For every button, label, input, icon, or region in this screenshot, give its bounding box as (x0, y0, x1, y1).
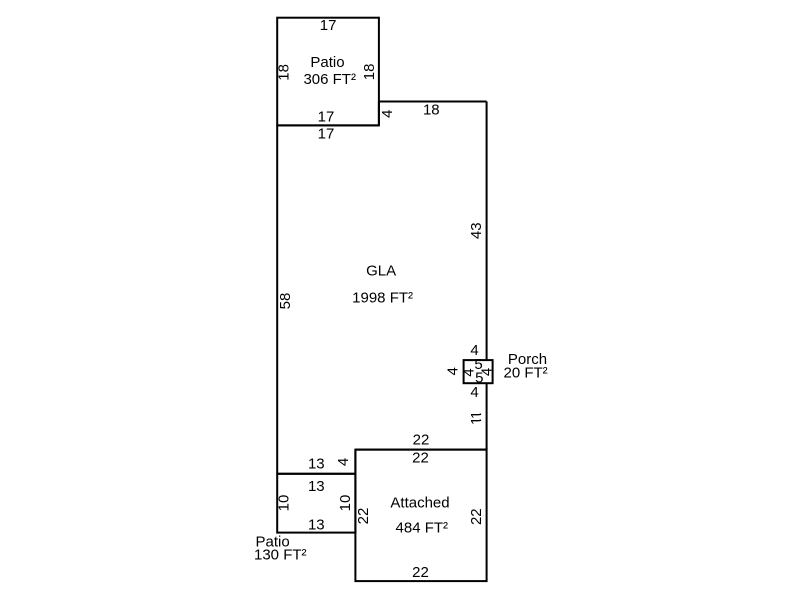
svg-text:18: 18 (276, 64, 293, 81)
svg-text:4: 4 (444, 367, 461, 375)
svg-text:22: 22 (413, 432, 430, 449)
svg-text:Patio: Patio (310, 54, 344, 71)
svg-text:10: 10 (337, 495, 354, 512)
svg-text:130 FT²: 130 FT² (254, 546, 307, 563)
svg-text:10: 10 (276, 495, 293, 512)
svg-text:22: 22 (412, 564, 429, 581)
dim 10 patio bottom right (337, 495, 354, 512)
dim 10 patio bottom left (276, 495, 293, 512)
svg-text:58: 58 (277, 293, 294, 310)
patio (bottom) outline (277, 474, 355, 533)
svg-text:306 FT²: 306 FT² (303, 71, 356, 88)
dim 4 left of porch (444, 367, 461, 375)
dim 18 patio right (361, 64, 378, 81)
svg-text:4: 4 (379, 110, 396, 118)
dim 18 patio left (276, 64, 293, 81)
svg-text:GLA: GLA (366, 263, 396, 280)
svg-text:18: 18 (361, 64, 378, 81)
dim 58 GLA left (277, 293, 294, 310)
dim 43 GLA right (468, 222, 485, 239)
porch outline (464, 360, 493, 383)
svg-text:4: 4 (470, 384, 478, 401)
svg-text:4: 4 (335, 458, 352, 466)
dim 11 GLA right lower (468, 411, 485, 419)
svg-text:13: 13 (308, 456, 325, 473)
svg-text:484 FT²: 484 FT² (396, 520, 449, 537)
svg-text:Attached: Attached (390, 495, 449, 512)
patio (top) outline (277, 18, 379, 126)
svg-text:22: 22 (468, 508, 485, 525)
svg-text:1998 FT²: 1998 FT² (352, 290, 413, 307)
svg-text:13: 13 (308, 517, 325, 534)
svg-text:22: 22 (355, 508, 372, 525)
svg-text:20 FT²: 20 FT² (504, 365, 548, 382)
svg-text:17: 17 (318, 126, 335, 143)
svg-text:1: 1 (468, 417, 485, 425)
svg-text:17: 17 (318, 108, 335, 125)
dim 4 GLA step bottom (335, 458, 352, 466)
dim 4 porch inside right (478, 368, 495, 376)
svg-text:43: 43 (468, 222, 485, 239)
dim 4 porch inside left (460, 368, 477, 376)
svg-text:22: 22 (412, 450, 429, 467)
dim 22 garage right (468, 508, 485, 525)
svg-text:18: 18 (423, 102, 440, 119)
dim 22 garage left (355, 508, 372, 525)
GLA outline (277, 102, 486, 474)
svg-text:17: 17 (320, 17, 337, 34)
dim 4 GLA step (379, 110, 396, 118)
svg-text:13: 13 (308, 478, 325, 495)
attached garage outline (355, 450, 486, 581)
